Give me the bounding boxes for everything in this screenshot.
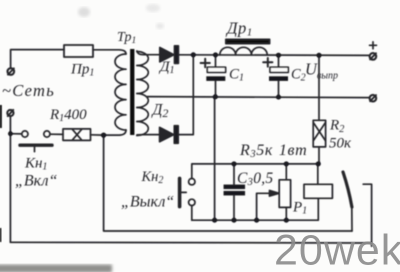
wire: diode output riser — [178, 55, 193, 135]
wire: node to Кн1 left contact — [10, 133, 21, 135]
resistor R3 body — [279, 180, 290, 208]
node: R1 output — [101, 133, 106, 138]
diode Д2 — [160, 127, 174, 141]
node: terminal2/Кн1 — [8, 131, 13, 136]
wire: outer bottom rail — [10, 241, 371, 244]
wire: Кн1 to R1 — [50, 133, 63, 135]
transformer Тр1 primary winding — [115, 54, 126, 130]
node: C1 top — [213, 52, 218, 57]
resistor R2 lead from plus rail — [318, 55, 320, 120]
terminal 1 (~Сеть upper) — [8, 68, 15, 75]
C2 polarity plus — [263, 58, 272, 67]
output terminal plus — [370, 53, 377, 60]
resistor R2 (with X) — [313, 120, 325, 147]
wire: terminal1 to fuse — [11, 50, 64, 68]
wire: minus rail down to control rail — [214, 97, 216, 221]
capacitor C3 top lead — [233, 164, 235, 185]
svg-text:Тр1: Тр1 — [117, 30, 136, 46]
capacitor C2 plus lead — [278, 55, 280, 67]
relay P1 coil — [304, 184, 332, 198]
relay contact arm — [343, 172, 352, 207]
relay fixed contact — [363, 184, 371, 246]
wire: secondary top to Д1 — [137, 51, 160, 55]
capacitor C2 plates — [270, 67, 288, 72]
svg-text:R1400: R1400 — [49, 107, 87, 124]
node: wiper at bottom rail — [254, 218, 259, 223]
svg-text:Кн1: Кн1 — [24, 156, 47, 173]
svg-text:R2: R2 — [329, 118, 345, 136]
fuse Пр1 — [64, 45, 93, 57]
svg-text:„Вкл“: „Вкл“ — [15, 173, 57, 190]
switch Кн2 actuator bar — [178, 178, 182, 206]
wire: left node down to bottom rail — [9, 134, 11, 243]
capacitor C1 plates — [207, 67, 225, 72]
control bottom rail into relay coil bottom — [192, 198, 318, 220]
diode Д1 — [160, 48, 174, 62]
wire: secondary centre tap / minus rail — [147, 97, 369, 98]
capacitor C2 minus lead — [278, 81, 280, 97]
switch Кн2 lower lead — [191, 206, 193, 221]
svg-text:Пр1: Пр1 — [70, 62, 94, 79]
transformer Тр1 secondary winding — [137, 52, 149, 136]
relay P1 coil top lead — [317, 164, 319, 184]
svg-text:50к: 50к — [329, 136, 352, 152]
svg-text:С2: С2 — [291, 67, 306, 84]
node: C3 bottom — [232, 218, 237, 223]
svg-text:Кн2: Кн2 — [141, 169, 164, 186]
capacitor C3 bottom lead — [233, 195, 235, 220]
terminal 2 (~Сеть lower) — [7, 110, 13, 116]
choke Др1 core — [226, 39, 270, 43]
svg-text:~Сеть: ~Сеть — [2, 81, 55, 100]
paper noise blobs — [78, 7, 90, 17]
switch Кн1 contacts — [22, 131, 28, 137]
scan smudge left edge — [0, 105, 2, 128]
svg-text:С30,5: С30,5 — [237, 170, 273, 188]
capacitor C1 plus lead — [215, 55, 217, 67]
node: centre-tap line at bottom rail — [212, 218, 217, 223]
svg-text:Р1: Р1 — [292, 200, 307, 217]
wire: terminal2 down to Кн1 node — [9, 116, 11, 134]
resistor R3 top lead — [285, 164, 287, 180]
node: diode outputs — [191, 52, 196, 57]
output terminal minus — [370, 95, 377, 102]
node: R2 top — [317, 53, 322, 58]
plus sign above output — [370, 42, 377, 49]
wire: R1 to primary bottom junction — [91, 134, 104, 136]
wire: secondary bottom to Д2 — [137, 134, 160, 136]
svg-text:„Выкл“: „Выкл“ — [121, 194, 174, 211]
resistor R2 lower lead — [318, 147, 320, 164]
resistor R3 wiper arrow wire — [257, 193, 271, 220]
svg-text:R35к1вт: R35к1вт — [239, 142, 307, 160]
switch Кн2 upper lead to control rail — [192, 164, 319, 179]
node: C2 bottom — [276, 95, 281, 100]
node: R2 bottom / coil top — [316, 161, 321, 166]
node: C3 top — [232, 161, 237, 166]
switch Кн2 contacts — [189, 179, 195, 185]
svg-text:Д1: Д1 — [158, 59, 175, 76]
resistor R1 (fusible, X inside) — [63, 129, 91, 141]
wire: junction to transformer primary bottom — [104, 130, 126, 135]
capacitor C3 plates — [224, 185, 245, 189]
wire: junction down then right (inner bottom rail) — [104, 135, 352, 231]
C1 polarity plus — [201, 59, 210, 68]
choke Др1 winding — [220, 47, 267, 55]
capacitor C1 minus lead — [215, 81, 217, 97]
node: R3 bottom — [284, 218, 289, 223]
node: C2 top — [276, 53, 281, 58]
switch Кн1 actuator bar — [20, 143, 52, 146]
node: R3 top — [284, 161, 289, 166]
node: C1 bottom — [213, 94, 218, 99]
wire: Д1 out / plus rail — [178, 54, 369, 57]
scan smudge bottom left — [0, 265, 112, 272]
transformer Тр1 core — [130, 49, 134, 135]
wire: fuse to transformer primary top — [93, 50, 126, 54]
svg-text:С1: С1 — [229, 67, 244, 84]
resistor R3 bottom lead — [285, 207, 287, 220]
svg-text:20wek: 20wek — [274, 227, 400, 272]
svg-text:Д2: Д2 — [151, 102, 169, 121]
svg-text:Др1: Др1 — [225, 19, 253, 39]
svg-text:Uвыпр: Uвыпр — [305, 60, 338, 82]
